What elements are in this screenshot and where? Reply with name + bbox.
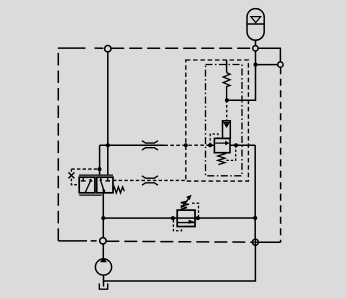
junction dot reducing valve outlet xyxy=(234,143,238,147)
accumulator shell xyxy=(247,9,264,41)
wire junction to right port circle xyxy=(256,64,278,66)
junction dot supply/LS xyxy=(106,143,110,147)
reducing valve through-line xyxy=(210,144,255,146)
outer manifold boundary right edge (dashed drain line) xyxy=(280,67,282,242)
reducing valve internal passage line xyxy=(215,142,226,144)
pilot line spring to poppet (dashed) xyxy=(226,100,228,121)
return line bottom xyxy=(104,245,256,281)
pilot line left (dashed L-path) xyxy=(210,134,218,145)
poppet seat line xyxy=(223,122,231,124)
junction dot outlet/relief tap xyxy=(101,216,105,220)
directional valve return spring xyxy=(113,187,125,193)
LS / reducing-valve feed line (solid part) xyxy=(100,144,165,146)
supply line from port P down to valve xyxy=(107,52,109,175)
right vertical line (reduced pressure rail) xyxy=(254,145,256,239)
outer manifold boundary bottom edge (dashed) xyxy=(58,240,96,242)
inner dashed enclosure box xyxy=(186,60,249,181)
reducing valve internal arrow xyxy=(225,141,229,146)
accumulator separator line xyxy=(247,23,264,25)
outer manifold boundary left edge (dashed) xyxy=(57,53,59,241)
relief valve pilot dashes (right) xyxy=(192,203,199,216)
relief valve spring (chevrons above) xyxy=(181,201,189,209)
pump suction below port xyxy=(102,244,104,259)
port node accumulator (circle on top edge) xyxy=(253,46,258,51)
orifice 1 (restriction) xyxy=(142,141,158,150)
directional valve right position box xyxy=(97,177,113,193)
reducing valve body (square) xyxy=(214,138,230,152)
right edge bottom link xyxy=(258,241,280,243)
pilot symbol connections (dashed) xyxy=(71,169,79,185)
directional valve top cover line xyxy=(79,174,113,176)
wire accumulator to port xyxy=(255,40,257,45)
left cell flow arrow xyxy=(85,179,91,192)
junction dot relief outlet xyxy=(196,216,200,220)
accumulator gas symbol (triangle) xyxy=(251,17,261,23)
pump circle xyxy=(95,259,111,275)
junction dot relief spring bottom xyxy=(225,98,229,102)
port node pump suction (circle on bottom edge) xyxy=(100,238,106,244)
reducing valve spring (zigzag below) xyxy=(218,153,225,165)
pilot control symbol X xyxy=(68,172,74,178)
right cell blocked port T xyxy=(105,177,110,181)
valve outlet line down xyxy=(102,193,104,238)
directional valve bottom extra line xyxy=(79,194,102,196)
tank symbol xyxy=(99,283,107,289)
pump to tank line xyxy=(103,275,105,287)
relief valve internal line xyxy=(177,222,195,224)
outer manifold boundary top edge (dashed) xyxy=(58,47,104,49)
poppet (filled triangle) xyxy=(224,123,230,128)
relief valve pilot dashes (left loop) xyxy=(173,220,181,231)
inner dash-dot enclosure box xyxy=(206,65,243,176)
orifice 2 (restriction) xyxy=(142,176,158,185)
wire port to upper-right junction and down to relief spring branch xyxy=(227,51,256,100)
junction dot at right vertical xyxy=(253,216,257,220)
pilot relief spring line xyxy=(226,60,228,73)
right cell flow arrow down xyxy=(100,177,102,180)
relief valve adjustment arrow xyxy=(181,199,189,208)
junction dot pilot tap xyxy=(98,167,102,171)
LS / reducing-valve feed line (dashed part) xyxy=(164,144,210,146)
junction dot relief inlet xyxy=(171,216,175,220)
relief valve internal arrow xyxy=(189,220,195,224)
LS sense line from valve (dashed) through orifice 2 xyxy=(113,179,186,181)
pump flow triangle xyxy=(100,258,107,262)
branch down to valve P port xyxy=(99,145,101,175)
pilot relief spring (zigzag) xyxy=(223,73,230,101)
junction dot upper right xyxy=(254,63,258,67)
pilot line right to spring (dashed) xyxy=(225,145,236,160)
left cell blocked port T xyxy=(81,177,86,181)
port node P (circle on top edge) xyxy=(105,46,111,52)
directional valve left position box xyxy=(79,177,95,193)
junction dot LS at box edge xyxy=(184,143,188,147)
junction dot reducing valve inlet xyxy=(208,143,212,147)
wire accumulator port to right corner xyxy=(258,48,280,62)
pilot line to valve (dashed horizontal) xyxy=(71,168,97,170)
port node upper right xyxy=(278,62,283,67)
relief valve body xyxy=(177,210,195,226)
relief tap line (horizontal) xyxy=(103,217,255,219)
poppet cartridge body (narrow rect) xyxy=(223,121,231,139)
port node tank return (circle with cross, bottom right) xyxy=(251,238,259,246)
